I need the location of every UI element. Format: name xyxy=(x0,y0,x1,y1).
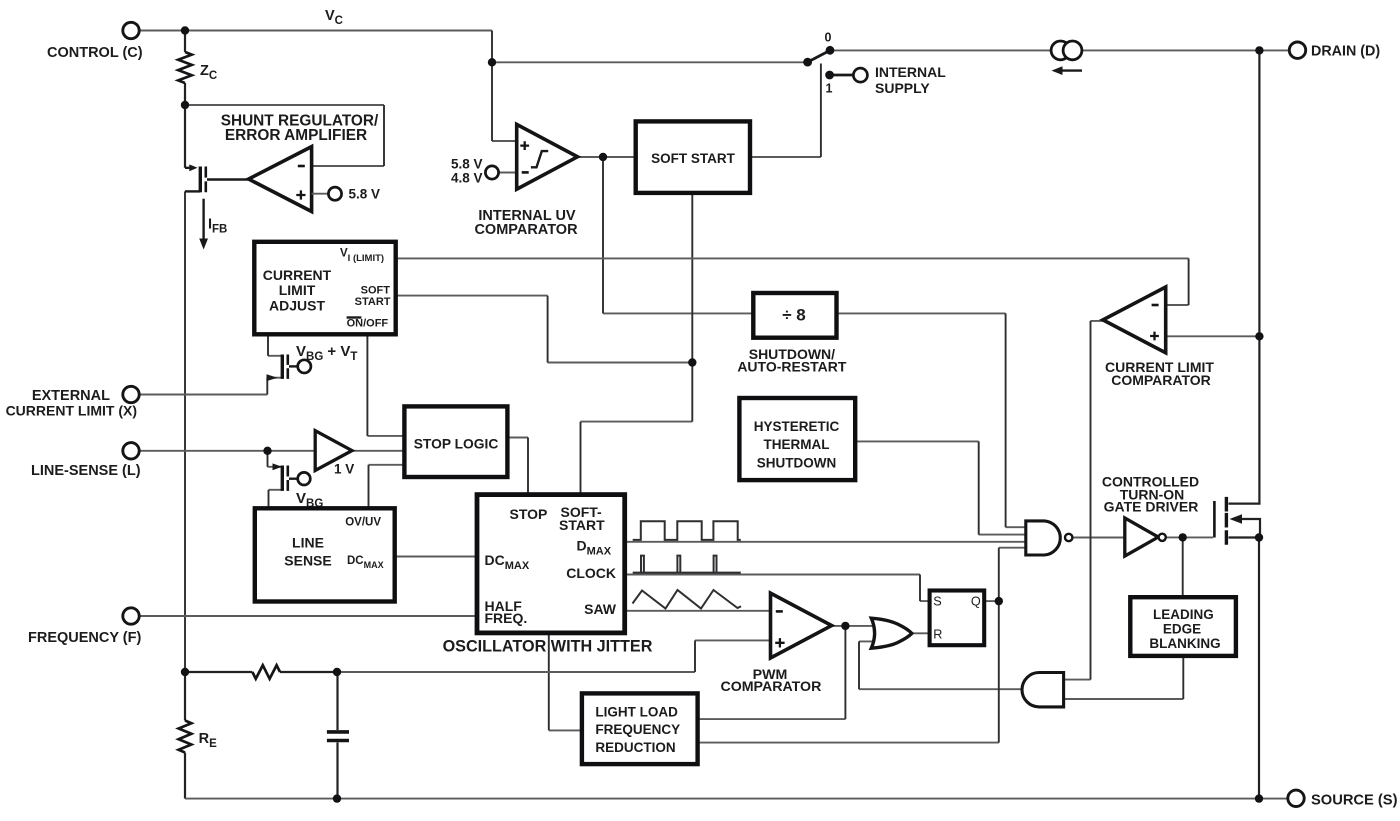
svg-text:SUPPLY: SUPPLY xyxy=(875,80,930,96)
buffer 1V line sense xyxy=(315,431,352,471)
op-amp U1 shunt regulator error amplifier xyxy=(249,147,312,212)
gate OR1 xyxy=(871,618,912,648)
wire current limit comparator output down to AND input xyxy=(1064,321,1103,680)
junction node comparator plus on drain rail xyxy=(1255,332,1263,340)
junction node source rail bottom xyxy=(1255,794,1263,802)
svg-text:LINE: LINE xyxy=(292,534,324,550)
svg-text:0: 0 xyxy=(825,31,832,45)
wire current limit adjust SOFT START output xyxy=(396,296,693,363)
buffer gate driver xyxy=(1125,518,1159,556)
junction node MOSFET source xyxy=(1255,533,1263,541)
wire NAND output to gate driver xyxy=(1073,537,1125,539)
wire V_C branch to switch pole xyxy=(492,61,806,63)
wire PWM output to OR gate xyxy=(832,625,874,627)
wire ON/OFF to stop logic xyxy=(367,435,404,437)
schmitt hysteresis glyph xyxy=(531,151,548,167)
op-amp U3 current limit comparator xyxy=(1103,287,1166,353)
wire OV/UV from line sense to stop logic xyxy=(369,464,405,466)
svg-text:COMPARATOR: COMPARATOR xyxy=(474,222,578,238)
wire top drain rail xyxy=(830,49,1051,51)
junction node V_C at control rail xyxy=(181,26,189,34)
wire left control rail with Z_C xyxy=(184,31,186,53)
wire rail mid section xyxy=(184,191,186,672)
wire AND output to OR lower input xyxy=(859,641,1022,689)
svg-text:FREQ.: FREQ. xyxy=(485,610,528,626)
wire soft start box output to switch position 1 xyxy=(750,156,821,158)
wire capacitor leads xyxy=(336,672,338,730)
op-amp U4 PWM comparator xyxy=(771,593,832,658)
wire SAW to PWM minus input xyxy=(625,610,771,612)
switch SW internal supply select xyxy=(807,50,831,63)
gate circle V_BG xyxy=(298,472,311,485)
svg-text:AUTO-RESTART: AUTO-RESTART xyxy=(737,359,847,375)
svg-text:COMPARATOR: COMPARATOR xyxy=(1111,372,1211,388)
terminal LINE-SENSE (L) xyxy=(123,443,139,459)
svg-text:START: START xyxy=(355,296,391,308)
junction node RC left xyxy=(181,668,189,676)
terminal FREQUENCY (F) xyxy=(123,608,139,624)
svg-text:START: START xyxy=(559,517,605,533)
svg-text:HYSTERETIC: HYSTERETIC xyxy=(754,419,840,434)
wire LINE-SENSE pin line xyxy=(139,450,316,452)
svg-text:LIMIT: LIMIT xyxy=(279,282,316,298)
terminal 5.8 V reference xyxy=(328,187,341,200)
wire MOSFET source lead to source rail xyxy=(1229,536,1260,538)
svg-text:R: R xyxy=(933,628,942,642)
wire FREQUENCY pin to oscillator half freq xyxy=(139,615,477,617)
svg-text:4.8 V: 4.8 V xyxy=(451,171,483,186)
wire gate driver output to MOSFET gate xyxy=(1166,536,1213,538)
wire D_MAX to NAND input 3 xyxy=(625,541,1026,543)
svg-text:DRAIN (D): DRAIN (D) xyxy=(1311,44,1380,60)
wire UV output down to divide-by-8 input xyxy=(603,312,753,314)
svg-text:SOFT START: SOFT START xyxy=(651,151,735,166)
block CURRENT LIMIT ADJUST xyxy=(254,242,395,334)
terminal INTERNAL SUPPLY xyxy=(853,68,867,82)
svg-text:CURRENT LIMIT (X): CURRENT LIMIT (X) xyxy=(6,403,137,419)
svg-text:CURRENT: CURRENT xyxy=(263,267,332,283)
svg-text:CONTROL (C): CONTROL (C) xyxy=(47,45,143,61)
block HYSTERETIC THERMAL SHUTDOWN xyxy=(739,398,855,480)
block divide by 8 xyxy=(753,293,836,338)
svg-text:SENSE: SENSE xyxy=(284,553,331,569)
resistor frequency jitter xyxy=(252,665,280,679)
switch contact 0 xyxy=(826,46,835,55)
wire 1V buffer output to stop logic xyxy=(352,450,404,452)
resistor R_E xyxy=(179,721,192,753)
wire DC_MAX line sense to oscillator xyxy=(395,556,477,558)
wire bottom source rail xyxy=(185,798,1288,800)
waveform SAW triangle wave xyxy=(633,590,742,609)
svg-text:CLOCK: CLOCK xyxy=(566,565,616,581)
svg-text:COMPARATOR: COMPARATOR xyxy=(720,679,821,695)
terminal EXTERNAL CURRENT LIMIT (X) xyxy=(123,386,139,402)
svg-text:ADJUST: ADJUST xyxy=(269,297,325,313)
svg-text:S: S xyxy=(933,594,941,608)
wire PWM output node down to light load output xyxy=(698,718,846,720)
svg-text:LINE-SENSE (L): LINE-SENSE (L) xyxy=(31,463,141,479)
waveform CLOCK pulses xyxy=(633,572,741,574)
svg-text:LEADING: LEADING xyxy=(1153,607,1214,622)
svg-text:Q: Q xyxy=(971,594,981,608)
junction node V_C corner branch xyxy=(488,58,496,66)
svg-text:FREQUENCY: FREQUENCY xyxy=(595,722,680,737)
wire 5.8V reference to plus input xyxy=(312,193,329,195)
wire UV comparator minus input xyxy=(499,172,518,174)
transistor Q2 external current limit V_BG+V_T xyxy=(267,355,298,382)
block LEADING EDGE BLANKING xyxy=(1130,597,1236,656)
svg-text:THERMAL: THERMAL xyxy=(764,437,830,452)
gate AND1 mirrored xyxy=(1022,673,1064,707)
wire thermal shutdown output to NAND input 2 xyxy=(855,441,1026,534)
svg-text:÷ 8: ÷ 8 xyxy=(782,306,806,325)
block STOP LOGIC xyxy=(404,406,507,477)
svg-text:1: 1 xyxy=(826,82,833,96)
wire Q down to light load right input xyxy=(698,742,999,744)
svg-text:SAW: SAW xyxy=(584,601,617,617)
arrow current source direction xyxy=(1060,69,1082,71)
junction node soft start net xyxy=(688,358,696,366)
terminal SOURCE (S) xyxy=(1288,790,1304,806)
transistor Q4 power MOSFET xyxy=(1214,497,1242,545)
junction node gate driver output xyxy=(1179,533,1187,541)
junction node below Z_C xyxy=(181,101,189,109)
gate NAND1 xyxy=(1026,521,1060,555)
op-amp U2 internal UV comparator xyxy=(517,124,578,189)
svg-text:LIGHT LOAD: LIGHT LOAD xyxy=(595,705,678,720)
transistor Q3 line sense V_BG xyxy=(273,463,298,491)
block OSCILLATOR WITH JITTER xyxy=(477,495,625,633)
junction node line-sense xyxy=(263,447,271,455)
svg-text:OSCILLATOR WITH JITTER: OSCILLATOR WITH JITTER xyxy=(443,637,653,655)
transistor Q1 shunt feedback MOSFET xyxy=(185,164,249,192)
wire rail below shunt node xyxy=(184,105,186,168)
svg-text:ON/OFF: ON/OFF xyxy=(347,318,389,330)
junction node UV comparator output xyxy=(599,153,607,161)
wire switch position 1 stub to internal supply xyxy=(830,74,854,77)
wire Q up to NAND input 4 xyxy=(999,547,1026,549)
terminal CONTROL (C) xyxy=(123,22,139,38)
wire rail bottom below R_E xyxy=(184,753,186,799)
svg-text:SHUTDOWN: SHUTDOWN xyxy=(757,455,837,470)
wire RC node line to PWM plus input xyxy=(185,671,252,673)
wire V_I(LIMIT) to current limit comparator minus xyxy=(396,258,1189,305)
svg-text:REDUCTION: REDUCTION xyxy=(595,740,675,755)
wire divide-by-8 output to NAND input 1 xyxy=(837,313,1026,527)
current source top rail xyxy=(1051,41,1070,60)
wire soft start box bottom to oscillator soft-start input xyxy=(581,421,693,423)
terminal UV threshold xyxy=(485,166,498,179)
wire stop logic output to oscillator STOP input xyxy=(507,437,528,439)
svg-text:EDGE: EDGE xyxy=(1163,622,1201,637)
wire V_C top from CONTROL to corner xyxy=(139,30,492,32)
arrow I_FB xyxy=(202,199,204,240)
wire MOSFET body lead xyxy=(1241,519,1260,538)
capacitor C xyxy=(327,730,349,734)
svg-text:GATE DRIVER: GATE DRIVER xyxy=(1104,498,1199,514)
wire V_C corner down to UV comparator plus input xyxy=(492,140,517,142)
svg-text:ERROR AMPLIFIER: ERROR AMPLIFIER xyxy=(225,127,367,144)
resistor Z_C xyxy=(178,52,192,83)
wire gate node down to leading edge blanking xyxy=(1182,537,1184,597)
wire CLOCK to latch S input xyxy=(625,575,930,602)
wire current limit comparator plus to drain rail xyxy=(1166,335,1260,337)
svg-text:5.8 V: 5.8 V xyxy=(349,186,381,201)
junction node capacitor bottom xyxy=(333,794,341,802)
svg-text:STOP LOGIC: STOP LOGIC xyxy=(414,437,499,452)
block LIGHT LOAD FREQUENCY REDUCTION xyxy=(582,693,698,764)
wire OR output to latch R input xyxy=(912,632,930,634)
wire EXTERNAL CURRENT LIMIT pin line xyxy=(139,394,267,396)
svg-text:1 V: 1 V xyxy=(334,462,354,477)
svg-text:SOURCE (S): SOURCE (S) xyxy=(1311,793,1398,809)
junction node capacitor top xyxy=(333,668,341,676)
junction node PWM comparator output xyxy=(841,622,849,630)
wire leading edge blanking to AND input xyxy=(1064,698,1184,700)
wire latch Q output node xyxy=(984,600,999,602)
block SOFT START xyxy=(636,121,750,192)
terminal DRAIN (D) xyxy=(1289,42,1305,58)
wire oscillator bottom to light load box xyxy=(549,729,582,731)
svg-text:FREQUENCY (F): FREQUENCY (F) xyxy=(28,630,141,646)
wire UV comparator output to soft start xyxy=(578,156,637,158)
wire X transistor leads xyxy=(268,355,281,357)
block LINE SENSE xyxy=(255,508,395,601)
svg-text:INTERNAL: INTERNAL xyxy=(875,64,946,80)
svg-text:STOP: STOP xyxy=(510,506,548,522)
wire drain rail down to MOSFET drain xyxy=(1229,50,1260,503)
svg-text:BLANKING: BLANKING xyxy=(1149,636,1220,651)
svg-text:SOFT: SOFT xyxy=(361,285,391,297)
svg-text:5.8 V: 5.8 V xyxy=(451,157,483,172)
latch SR flip flop xyxy=(930,591,985,646)
switch contact 1 xyxy=(825,71,834,80)
wire shunt feedback loop xyxy=(185,105,384,166)
wire L transistor leads xyxy=(268,466,282,468)
junction node drain terminal xyxy=(1255,46,1263,54)
gate circle V_BG+V_T xyxy=(298,360,311,373)
svg-text:OV/UV: OV/UV xyxy=(345,516,381,528)
junction node latch Q output xyxy=(995,597,1003,605)
waveform D_MAX square wave xyxy=(633,521,741,540)
